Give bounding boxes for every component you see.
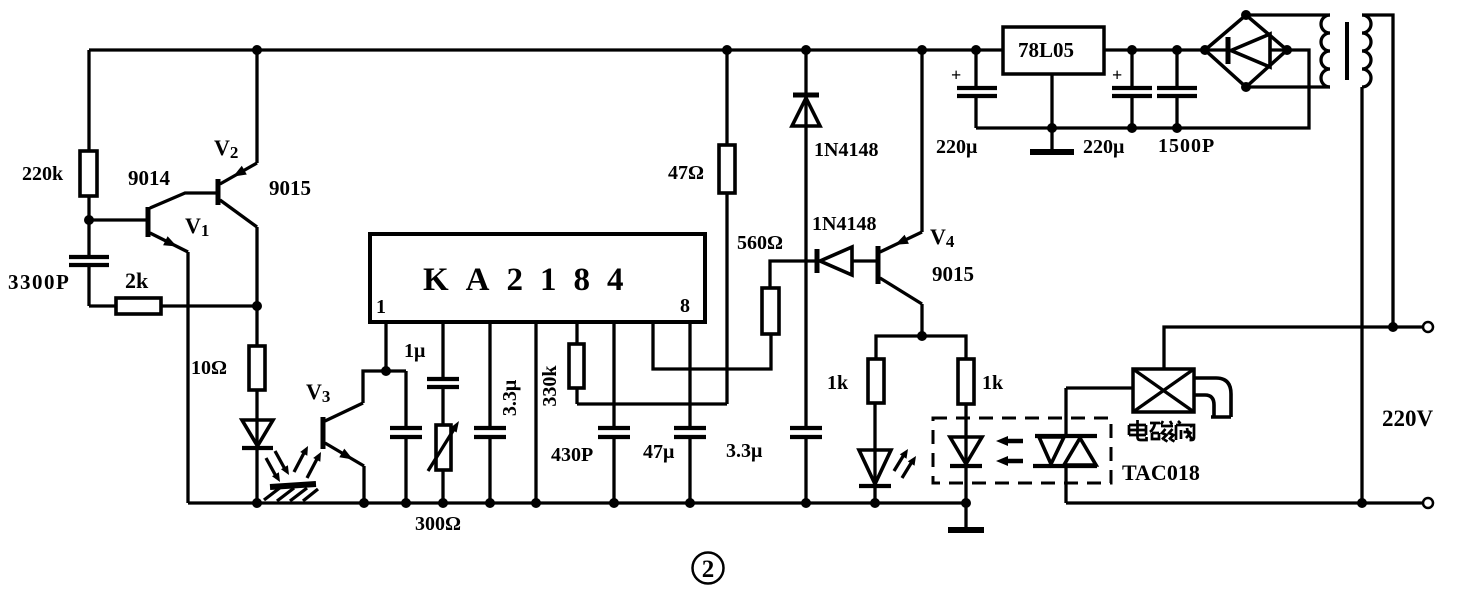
pin 1 number: [376, 296, 386, 318]
pin 8 number: [680, 295, 690, 317]
node LED on ground rail: [252, 498, 262, 508]
node 1500P bottom: [1172, 123, 1182, 133]
capacitor 3300P: [69, 220, 109, 306]
regulator U2 78L05: [1003, 27, 1104, 74]
node bridge bottom vertex: [1241, 82, 1251, 92]
terminal mains lower: [1423, 498, 1433, 508]
svg-text:10Ω: 10Ω: [191, 357, 227, 379]
wire 330k to 47-ohm branch: [577, 402, 727, 405]
transistor V4 9015: [878, 232, 922, 304]
wire bridge top to secondary: [1246, 13, 1330, 16]
node 220u input cap on rail: [971, 45, 981, 55]
LED indicator: [859, 403, 891, 503]
capacitor 1500P: [1157, 50, 1197, 128]
node bridge left vertex: [1200, 45, 1210, 55]
ground symbol regulator: [1030, 128, 1074, 152]
label 9015 V4: [932, 262, 974, 286]
diode 1N4148 horizontal: [817, 247, 876, 275]
node pin2 branch on rail: [438, 498, 448, 508]
label 1N4148 vertical: [814, 139, 878, 161]
node 220u output cap top: [1127, 45, 1137, 55]
svg-text:430P: 430P: [551, 444, 593, 466]
transformer T1 secondary winding: [1321, 15, 1330, 87]
solenoid outlet pipe: [1193, 378, 1231, 417]
svg-text:1N4148: 1N4148: [814, 139, 878, 161]
wire V2 emitter to rail: [255, 50, 258, 163]
svg-text:9015: 9015: [932, 262, 974, 286]
label 3.3u right: [726, 440, 763, 462]
transistor V2 9015: [218, 163, 257, 227]
label 3300P: [8, 270, 70, 294]
svg-text:1μ: 1μ: [404, 340, 426, 362]
terminal mains upper: [1423, 322, 1433, 332]
svg-text:330k: 330k: [539, 365, 561, 407]
resistor 10 ohm: [249, 306, 265, 448]
label 1N4148 horizontal: [812, 213, 876, 235]
optocoupler light arrows: [996, 436, 1023, 466]
reflected light rays to V3: [294, 446, 321, 478]
light rays from indicator LED: [894, 449, 916, 478]
label 220u output: [1083, 136, 1125, 158]
op-amp/IC U1 KA2184: [370, 234, 705, 322]
transformer core: [1345, 22, 1349, 80]
resistor 220k: [80, 151, 97, 220]
label 330k vertical: [539, 365, 561, 407]
node V4 emitter on rail: [917, 45, 927, 55]
LED emitter diode: [242, 420, 273, 503]
wire mains bottom: [1066, 501, 1423, 504]
svg-text:3.3μ: 3.3μ: [499, 379, 521, 416]
label V2: [214, 135, 238, 162]
svg-text:47Ω: 47Ω: [668, 162, 704, 184]
wire regulator ground pin: [1050, 74, 1053, 128]
label 430P: [551, 444, 593, 466]
label 9014: [128, 166, 171, 190]
svg-text:220μ: 220μ: [1083, 136, 1125, 158]
capacitor 47u at pin8: [674, 322, 706, 503]
label 560 ohm: [737, 232, 783, 254]
wire left branch from rail to 220k: [87, 50, 90, 151]
wire bridge bottom to secondary: [1246, 85, 1330, 88]
wire 2k to node: [161, 304, 257, 307]
resistor 560 ohm: [762, 261, 817, 334]
svg-text:1k: 1k: [982, 372, 1004, 394]
capacitor 220u input: [951, 50, 997, 128]
node indicator LED on rail: [870, 498, 880, 508]
node pin8 cap on rail: [685, 498, 695, 508]
svg-text:1k: 1k: [827, 372, 849, 394]
label V4: [930, 224, 955, 251]
svg-text:2: 2: [702, 556, 715, 583]
bridge internal diode: [1205, 34, 1287, 67]
node bridge right vertex: [1282, 45, 1292, 55]
label 220V: [1382, 406, 1434, 431]
node 2k / V2 collector / 10-ohm: [252, 301, 262, 311]
wire pin1 lead: [384, 322, 387, 371]
label solenoid valve chinese: [1129, 420, 1194, 442]
reflector hatched surface: [264, 484, 318, 501]
wire pin2 lead: [441, 322, 444, 378]
node 3.3u cap on rail: [801, 498, 811, 508]
label 1k right: [982, 372, 1004, 394]
wire V1 emitter to ground rail: [186, 252, 189, 503]
wire top supply rail: [89, 48, 1003, 51]
label V1: [185, 213, 209, 240]
light rays from LED to reflector: [266, 451, 289, 482]
label 47 ohm: [668, 162, 704, 184]
node V1 base junction: [84, 215, 94, 225]
resistor 1k right: [958, 359, 974, 404]
svg-text:300Ω: 300Ω: [415, 513, 461, 535]
triac of optocoupler: [1033, 388, 1097, 503]
capacitor 430P at pin6: [598, 322, 630, 503]
figure number 2: [693, 553, 724, 584]
diode 1N4148 vertical: [792, 50, 820, 427]
svg-text:220μ: 220μ: [936, 136, 978, 158]
svg-text:TAC018: TAC018: [1122, 460, 1200, 485]
node cap on rail: [401, 498, 411, 508]
wire pin4 to ground rail: [534, 322, 537, 503]
label 220u input: [936, 136, 978, 158]
label 1u: [404, 340, 426, 362]
node pin1 junction: [381, 366, 391, 376]
wire triac to solenoid: [1066, 386, 1133, 389]
resistor 47 ohm: [719, 50, 735, 404]
label V3: [306, 379, 330, 406]
node V2 emitter on rail: [252, 45, 262, 55]
optocoupler dashed package: [933, 418, 1111, 483]
node 47-ohm on rail: [722, 45, 732, 55]
node regulator ground: [1047, 123, 1057, 133]
svg-text:9014: 9014: [128, 166, 171, 190]
wire solenoid to live terminal: [1164, 327, 1423, 369]
capacitor 220u output: [1112, 50, 1152, 128]
svg-text:9015: 9015: [269, 176, 311, 200]
svg-text:3.3μ: 3.3μ: [726, 440, 763, 462]
node primary bottom on mains wire: [1357, 498, 1367, 508]
resistor 2k: [116, 298, 161, 314]
wire V2 collector down: [255, 227, 258, 306]
wire V4 collector down: [920, 304, 923, 336]
label 300 ohm: [415, 513, 461, 535]
label TAC018: [1122, 460, 1200, 485]
wire 1k feed: [876, 336, 966, 359]
transistor V1 9014: [148, 193, 218, 252]
wire V4 emitter to rail: [920, 50, 923, 232]
wire ground rail: [188, 501, 966, 504]
svg-text:220k: 220k: [22, 163, 64, 185]
node catch diode on rail: [801, 45, 811, 55]
svg-text:KA2184: KA2184: [423, 262, 641, 298]
svg-text:1: 1: [376, 296, 386, 318]
optocoupler LED: [950, 404, 982, 503]
wire power mid rail: [976, 50, 1309, 128]
wire V1 base: [89, 218, 147, 221]
svg-text:3300P: 3300P: [8, 270, 70, 294]
node V3 emitter on rail: [359, 498, 369, 508]
resistor 1k left: [868, 359, 884, 403]
phototransistor V3: [323, 403, 364, 466]
node 1500P top: [1172, 45, 1182, 55]
wire V3 emitter to ground rail: [362, 466, 365, 503]
svg-text:8: 8: [680, 295, 690, 317]
label 9015: [269, 176, 311, 200]
svg-text:47μ: 47μ: [643, 441, 675, 463]
svg-text:560Ω: 560Ω: [737, 232, 783, 254]
wire primary top to mains terminal: [1362, 15, 1393, 327]
label 1k left: [827, 372, 849, 394]
svg-text:78L05: 78L05: [1018, 38, 1074, 62]
capacitor 3.3u at pin3: [474, 322, 506, 503]
label 220k: [22, 163, 64, 185]
label 47u: [643, 441, 675, 463]
node 220u output cap bottom: [1127, 123, 1137, 133]
node pin6 cap on rail: [609, 498, 619, 508]
svg-text:+: +: [1112, 65, 1122, 85]
wire pin7 lead to 560-ohm: [653, 322, 771, 369]
node primary top on terminal wire: [1388, 322, 1398, 332]
capacitor 1u: [427, 379, 459, 425]
transformer T1 primary winding: [1362, 15, 1371, 87]
solenoid valve: [1133, 369, 1194, 412]
svg-text:+: +: [951, 65, 961, 85]
capacitor 3.3u at diode line: [790, 428, 822, 503]
wire 3300P to 2k: [89, 304, 116, 307]
label 1500P: [1158, 135, 1215, 157]
bridge rectifier diamond: [1205, 15, 1287, 87]
svg-text:1N4148: 1N4148: [812, 213, 876, 235]
label 10 ohm: [191, 357, 227, 379]
node opto LED ground junction: [961, 498, 971, 508]
node V4 collector junction: [917, 331, 927, 341]
node pin3 cap on rail: [485, 498, 495, 508]
capacitor at V3 collector: [390, 371, 422, 503]
svg-text:2k: 2k: [125, 268, 149, 293]
svg-text:220V: 220V: [1382, 406, 1434, 431]
node pin4 on rail: [531, 498, 541, 508]
variable resistor 300 ohm: [428, 421, 459, 503]
wire regulator output: [1104, 48, 1205, 51]
wire primary bottom to mains bottom: [1360, 87, 1363, 503]
node bridge top vertex: [1241, 10, 1251, 20]
resistor 330k at pin5: [569, 322, 584, 404]
wire V3 collector to pin1 node: [363, 371, 406, 403]
label 3.3u vertical: [499, 379, 521, 416]
svg-text:1500P: 1500P: [1158, 135, 1215, 157]
label 2k: [125, 268, 149, 293]
ground symbol signal: [948, 503, 984, 530]
